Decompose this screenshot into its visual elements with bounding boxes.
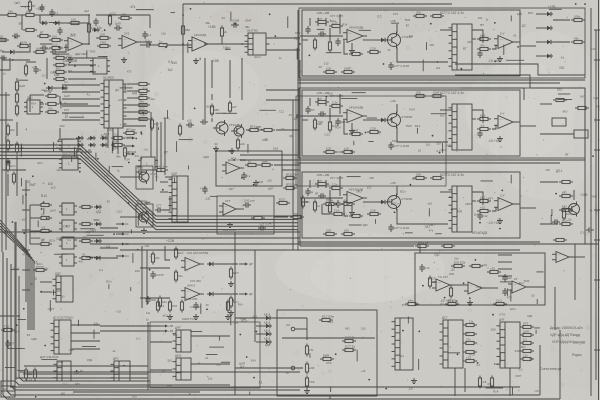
- resistor R61: [38, 212, 52, 219]
- label cluster center audio: [155, 105, 299, 196]
- resistor R91: [341, 198, 355, 205]
- label kd3: [264, 336, 271, 340]
- capacitor C6: [231, 19, 240, 28]
- capacitor CN1: [193, 302, 198, 310]
- resistor R82: [341, 146, 355, 153]
- capacitor C15: [552, 219, 560, 224]
- diode VD60: [92, 28, 100, 32]
- wire c5b3: [492, 207, 496, 211]
- resistor R99: [342, 344, 356, 351]
- resistor RQ1: [276, 197, 290, 204]
- IC DD5: [59, 153, 81, 171]
- label f minus: [205, 197, 210, 201]
- wire f4: [229, 60, 231, 98]
- label pm2: [488, 139, 499, 143]
- wire mr3: [498, 275, 512, 277]
- IC DD11: [497, 318, 521, 369]
- wire dres0: [127, 83, 139, 85]
- wire bus-diag3: [0, 155, 298, 226]
- resistor R52: [329, 100, 343, 107]
- resistor RP6: [158, 296, 167, 309]
- diode VD42: [94, 239, 102, 243]
- diode VDc1: [379, 38, 387, 42]
- capacitor C4: [142, 31, 151, 39]
- resistor R30: [136, 82, 150, 85]
- label eo1: [125, 232, 129, 236]
- IC DD8: [169, 172, 189, 223]
- wire rc4: [553, 19, 570, 21]
- resistor R92: [413, 90, 427, 97]
- wire step3: [460, 88, 524, 100]
- wire l2: [464, 368, 466, 392]
- resistor R94: [305, 362, 314, 375]
- IC DD14: [111, 357, 131, 382]
- IC DD63: [59, 254, 77, 266]
- wire dl4: [7, 174, 9, 196]
- wire f9: [160, 191, 168, 193]
- resistor R72: [247, 124, 262, 131]
- capacitor C23: [318, 193, 326, 198]
- wire rc3: [536, 55, 545, 57]
- wire bl3: [24, 365, 148, 367]
- label k lbl: [240, 317, 246, 321]
- ground Gc22: [497, 136, 503, 142]
- resistor R31: [136, 89, 150, 92]
- wire m0: [71, 324, 100, 326]
- capacitor C16: [586, 227, 594, 232]
- label ch top lbl3: [330, 176, 344, 180]
- wire o1: [191, 335, 230, 337]
- wire ledge2: [0, 57, 6, 59]
- wire ch-out-10: [520, 45, 536, 47]
- resistor RL11: [520, 329, 534, 336]
- capacitor CQ1: [155, 204, 163, 213]
- transistor VTQ: [136, 210, 155, 224]
- wire ch-top-172: [339, 176, 341, 196]
- capacitor CP1: [150, 271, 163, 279]
- label cluster bottom box K: [310, 320, 370, 392]
- wire rail l3: [25, 180, 27, 302]
- label dw1: [64, 87, 67, 91]
- resistor R54: [15, 142, 24, 155]
- resistor R40: [111, 132, 125, 139]
- op-amp DA3: [222, 158, 246, 174]
- wire channel frame 1: [302, 10, 520, 76]
- wire bus-diag-b3: [0, 229, 34, 330]
- wire bus-h3: [90, 243, 598, 245]
- wire tlw1: [0, 14, 8, 16]
- diode VD1: [40, 21, 48, 25]
- wire p2: [215, 293, 238, 295]
- resistor R22: [559, 204, 573, 211]
- IC DD62: [59, 237, 77, 249]
- diode VD34: [88, 143, 96, 147]
- capacitor C14: [502, 288, 507, 296]
- ground Gc23: [497, 218, 503, 224]
- wire bus-h2: [60, 237, 300, 239]
- wire c5b2: [492, 125, 496, 129]
- resistor RL3: [463, 350, 477, 353]
- resistor R111: [118, 12, 132, 19]
- wire d0: [62, 84, 100, 86]
- wire e-long1: [100, 237, 118, 239]
- node N terminal: [291, 366, 303, 370]
- capacitor C1: [49, 9, 58, 17]
- resistor RM2: [33, 368, 36, 381]
- resistor R43: [328, 202, 331, 215]
- wire frame H: [415, 253, 545, 305]
- ground GP2: [228, 310, 234, 316]
- wire redge6: [594, 279, 600, 281]
- wire rv3: [554, 287, 556, 330]
- op-amp DAo2: [494, 112, 517, 129]
- resistor R84: [449, 286, 452, 299]
- wire tlw8: [59, 96, 61, 104]
- IC connector X1: [1, 381, 15, 397]
- resistor R93: [413, 172, 427, 179]
- wire f2: [276, 129, 300, 131]
- capacitor CM1: [5, 340, 10, 348]
- wire m1: [71, 332, 100, 334]
- label cluster row1: [309, 11, 534, 74]
- wire vt-e2: [397, 127, 448, 142]
- label cluster row3: [315, 175, 511, 234]
- IC DD12: [51, 316, 75, 355]
- diode VDP2: [207, 292, 215, 296]
- wire p3: [140, 267, 170, 269]
- label h lbl2: [580, 193, 588, 197]
- label vt-pw3: [390, 181, 396, 185]
- wire f5: [211, 118, 213, 122]
- wire tl4: [46, 58, 48, 79]
- wire redge2: [594, 119, 600, 121]
- wire rv2: [574, 244, 576, 300]
- wire dl3: [16, 156, 18, 196]
- resistor RP3: [174, 270, 183, 283]
- label top note: [14, 1, 20, 5]
- wire rail stub0: [22, 189, 30, 191]
- label cluster mid-left digital: [57, 131, 148, 177]
- label lbl2: [440, 91, 464, 95]
- wire h3: [526, 286, 545, 288]
- resistor R90: [323, 198, 337, 205]
- wire l3: [509, 368, 511, 396]
- wire bv3: [329, 396, 331, 399]
- wire bv2: [234, 318, 236, 395]
- wire frame n1: [298, 79, 585, 81]
- wire step2: [455, 75, 585, 88]
- wire bus bottom5: [10, 386, 520, 388]
- wire rc7: [540, 133, 574, 135]
- ground G9: [411, 378, 417, 384]
- wire B6: [266, 37, 300, 39]
- resistor R101: [430, 14, 444, 17]
- ground G12: [225, 314, 231, 320]
- resistor R63: [38, 238, 52, 245]
- wire q3: [236, 208, 244, 210]
- label cluster top center: [188, 8, 301, 60]
- capacitor C53: [477, 212, 487, 220]
- wire f6: [274, 164, 300, 166]
- wire A6: [83, 15, 89, 44]
- label P plus: [166, 239, 174, 243]
- resistor R23: [559, 218, 573, 225]
- capacitor C12: [419, 264, 429, 272]
- wire e2: [30, 230, 41, 232]
- label lbl3: [440, 173, 464, 177]
- label P o2: [249, 292, 253, 296]
- wire A7: [96, 37, 100, 39]
- wire channel outer frame 2: [299, 88, 585, 158]
- wire ch-drop1-1: [317, 18, 319, 26]
- wire c13: [363, 201, 379, 203]
- resistor R71: [228, 101, 237, 114]
- wire tlw9: [2, 59, 30, 61]
- ground G11: [193, 314, 199, 320]
- wire p-rail2: [146, 250, 148, 305]
- wire tl7: [21, 15, 23, 30]
- wire i1: [322, 204, 330, 214]
- wire box K: [277, 310, 377, 396]
- wire bus-diag2: [0, 152, 298, 223]
- wire tl2: [68, 71, 96, 73]
- label dw3: [64, 101, 67, 105]
- label dw2: [64, 94, 70, 98]
- resistor R77: [259, 159, 273, 166]
- wire ddrop4: [150, 112, 152, 157]
- capacitor C22: [318, 111, 326, 116]
- resistor R23: [313, 200, 320, 213]
- ground G6: [253, 180, 259, 186]
- IC DD3: [24, 96, 43, 115]
- resistor RL14: [520, 353, 534, 360]
- diode VDc3: [379, 200, 387, 204]
- resistor R51: [15, 92, 18, 105]
- resistor R110: [108, 14, 111, 27]
- resistor R86: [441, 244, 455, 247]
- diode VD31: [88, 136, 96, 140]
- wire q5: [274, 216, 288, 218]
- wire bv4: [419, 245, 421, 253]
- IC DD16: [173, 326, 192, 353]
- wire dres3: [127, 104, 139, 106]
- wire heavy bus band: [14, 222, 16, 380]
- wire bus-h4: [120, 249, 520, 251]
- resistor R36: [45, 90, 59, 97]
- resistor R61b: [79, 222, 93, 225]
- node n1: [126, 145, 135, 148]
- wire c-in2: [300, 115, 343, 117]
- wire frame left v: [297, 10, 299, 250]
- capacitor C0a: [0, 55, 7, 60]
- resistor RL13: [520, 349, 534, 352]
- wire ledge5: [0, 119, 6, 121]
- node m-ar0: [159, 325, 168, 328]
- wire redge0: [594, 29, 600, 31]
- wire rail stub5: [22, 289, 30, 291]
- node p-out1: [239, 263, 248, 266]
- wire tl6: [149, 15, 151, 28]
- wire e3: [30, 243, 41, 245]
- wire d10: [0, 119, 13, 121]
- wire e4: [29, 205, 31, 244]
- resistor R72: [323, 146, 337, 153]
- wire dl2: [80, 151, 92, 153]
- wire mid h3: [240, 154, 298, 156]
- capacitor CP2: [145, 296, 156, 304]
- resistor R15: [553, 98, 567, 101]
- IC DD2: [101, 76, 127, 129]
- label lbl1: [440, 11, 464, 15]
- wire h6: [569, 256, 585, 258]
- capacitor C31: [335, 38, 340, 46]
- capacitor C7: [136, 166, 144, 175]
- wire rv4: [590, 260, 592, 396]
- wire d7: [60, 103, 88, 105]
- resistor R82: [469, 264, 483, 267]
- wire e5: [40, 281, 52, 283]
- resistor R121: [477, 43, 491, 50]
- resistor RL2: [463, 337, 477, 344]
- ground G1: [67, 57, 73, 63]
- wire dlow2: [2, 169, 26, 171]
- label d lbl: [44, 89, 52, 93]
- wire bus-diag-b2: [0, 226, 32, 330]
- transistor VTR box: [136, 166, 153, 189]
- wire tlc2: [16, 46, 30, 52]
- transistor VT5: [231, 124, 244, 138]
- capacitor C13: [502, 274, 512, 282]
- resistor R103: [53, 77, 67, 80]
- wire v1: [204, 58, 206, 122]
- diode VD11: [545, 26, 553, 30]
- label cluster H block: [422, 252, 544, 304]
- wire bus right-drop1: [559, 330, 561, 399]
- resistor R122: [477, 123, 491, 130]
- label vt-pw2: [390, 99, 396, 103]
- label eo3: [125, 254, 129, 258]
- capacitor C22: [12, 33, 20, 38]
- resistor R10: [156, 39, 170, 46]
- wire d1: [62, 91, 100, 93]
- ground G8: [304, 388, 310, 394]
- resistor R35: [136, 117, 150, 120]
- node n2: [126, 153, 135, 156]
- ground G5: [229, 148, 235, 154]
- wire c52: [472, 118, 476, 120]
- label B plus: [208, 25, 216, 29]
- wire h1: [450, 284, 464, 286]
- resistor RL20: [405, 298, 419, 305]
- wire ch-v-172: [329, 190, 331, 202]
- capacitor C25: [50, 49, 58, 54]
- wire k4: [306, 318, 308, 340]
- label cluster bottom-left: [5, 300, 151, 398]
- node p-out2: [239, 293, 248, 296]
- wire k0: [256, 317, 264, 319]
- op-amp DA7: [552, 252, 573, 263]
- resistor R122: [33, 46, 47, 53]
- resistor RM1: [24, 368, 27, 381]
- wire e-long3: [100, 257, 118, 259]
- op-amp DAo1: [494, 32, 517, 49]
- resistor R1: [5, 9, 19, 16]
- capacitor C10: [241, 172, 250, 180]
- resistor R78: [283, 172, 298, 179]
- wire o2: [191, 363, 230, 365]
- wire c53: [472, 200, 476, 202]
- wire ch-out-90: [520, 125, 536, 127]
- wire rc9: [540, 223, 558, 225]
- resistor R5: [49, 42, 63, 49]
- wire e6: [40, 291, 52, 293]
- resistor R42: [6, 139, 13, 152]
- resistor R81: [451, 260, 466, 267]
- label cluster row2: [318, 91, 452, 154]
- resistor R21: [559, 190, 573, 197]
- wire rail stub4: [22, 269, 30, 271]
- diode VD2: [53, 21, 61, 25]
- wire d6: [40, 103, 44, 105]
- wire rc2: [536, 41, 545, 43]
- transistor VT2: [385, 112, 413, 129]
- wire channel outer frame 1: [299, 8, 585, 78]
- resistor R100: [53, 52, 67, 59]
- wire ch-in-172: [302, 201, 308, 203]
- resistor RN0: [156, 300, 164, 313]
- wire dres1: [127, 90, 139, 92]
- ground Gc2: [349, 128, 355, 134]
- resistor RL24: [490, 376, 493, 389]
- label P o1: [249, 262, 253, 266]
- resistor R85: [415, 240, 429, 247]
- label pw2: [316, 91, 329, 95]
- wire c12: [363, 119, 379, 121]
- resistor R70: [210, 104, 219, 117]
- wire q2: [163, 196, 170, 210]
- resistor R41: [111, 139, 125, 146]
- label P c1: [190, 305, 201, 309]
- wire bus-diag0: [0, 145, 298, 216]
- wire ch-drop3-1: [317, 180, 319, 188]
- resistor R33: [315, 178, 329, 185]
- wire f3: [211, 94, 213, 100]
- wire ch-drop1-2: [325, 18, 327, 26]
- wire c-gnd1: [351, 43, 353, 48]
- capacitor CQ2: [243, 199, 255, 208]
- label Q pm: [222, 228, 236, 232]
- wire bus mid-bottom: [23, 373, 148, 375]
- wire h7: [573, 190, 575, 200]
- wire tlw4: [112, 128, 114, 151]
- capacitor C3: [40, 45, 48, 50]
- wire tlw11: [16, 122, 18, 136]
- diode VD62: [60, 86, 68, 90]
- diode VD12: [545, 40, 553, 44]
- label cluster left column: [6, 136, 62, 270]
- wire ch-top-10: [339, 14, 341, 34]
- wire ddrop2: [160, 122, 162, 172]
- resistor R74: [178, 124, 181, 137]
- resistor R20: [559, 180, 573, 183]
- wire sheet border right: [598, 0, 600, 400]
- wire rc1: [536, 27, 545, 29]
- IC DD61: [59, 220, 77, 232]
- resistor R120: [28, 0, 35, 13]
- ground Gc1: [349, 48, 355, 54]
- wire ch-top-90: [339, 94, 341, 114]
- label pm3: [488, 221, 499, 225]
